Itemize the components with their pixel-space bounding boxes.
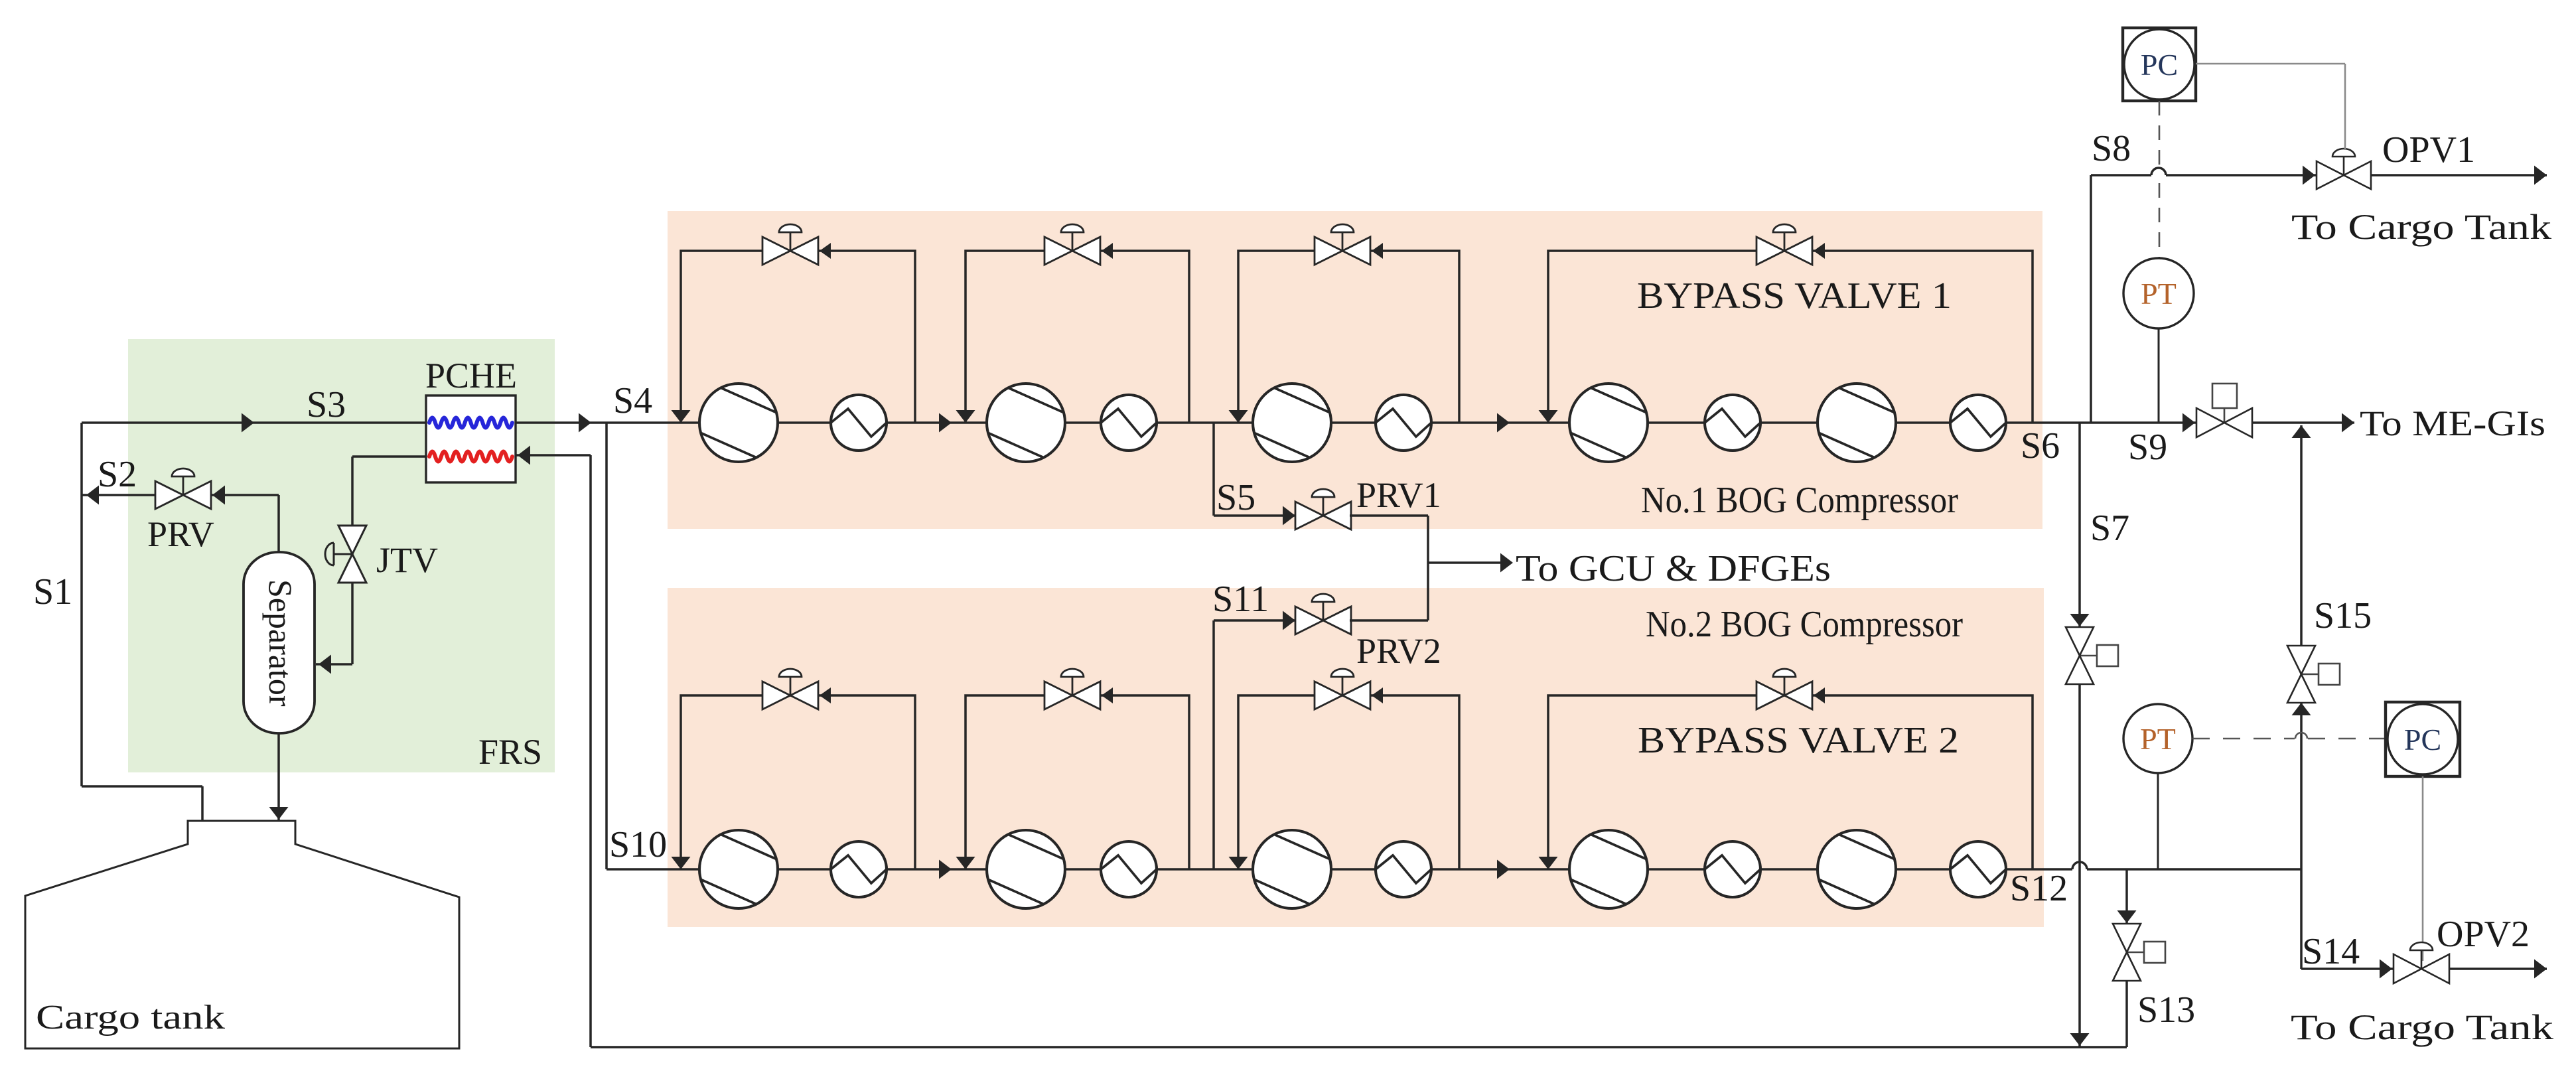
label S11 (1212, 579, 1269, 620)
wire bypass loop 4 row 1 (1548, 251, 2033, 423)
wire S2 (PRV to S1 line) (82, 486, 158, 505)
label OPV2 (2437, 914, 2530, 955)
svg-text:OPV1: OPV1 (2382, 129, 2475, 171)
valve PRV (155, 468, 211, 509)
wire S15 riser (2292, 425, 2311, 869)
wire S10 riser (S4 split down to No.2 train) (605, 423, 608, 869)
wire bypass loop 2 row 1 (966, 251, 1189, 423)
flow arrow row2 stage4 inlet (1497, 860, 1510, 879)
wire S8 riser (2090, 175, 2092, 423)
valve OPV2 (2394, 942, 2449, 983)
label No.2 BOG Compressor (1646, 604, 1963, 645)
label Separator (262, 579, 299, 707)
bypass valve 1 row 1 (762, 224, 818, 265)
label OPV1 (2382, 129, 2475, 171)
label S12 (2010, 868, 2068, 909)
flow arrow into loop 3 row 1 downcomer (1229, 410, 1248, 423)
valve S7 (2066, 627, 2118, 684)
compressor stage 3 row 2 (1253, 830, 1331, 908)
label To Cargo Tank (bottom) (2291, 1007, 2553, 1047)
intercooler stage 1 row 1 (831, 395, 887, 451)
svg-text:FRS: FRS (478, 732, 542, 772)
svg-text:S6: S6 (2021, 425, 2060, 466)
label S3 (307, 384, 346, 425)
label PCHE (425, 356, 517, 395)
flow arrow row1 stage2 inlet (939, 413, 952, 433)
wire S12 main line (No.2 compressor train) (607, 862, 2301, 869)
compressor stage 2 row 2 (987, 830, 1065, 908)
valve S13 (2113, 924, 2165, 981)
label JTV (376, 540, 438, 580)
bypass valve 3 row 1 (1315, 224, 1370, 265)
No.2 BOG compressor background (orange region) (668, 588, 2044, 927)
signal wire PC to OPV1 (2196, 64, 2345, 150)
intercooler stage 5 row 2 (1950, 841, 2006, 897)
label S4 (613, 380, 652, 421)
wire PRV1 outlet to GCU header (1350, 516, 1428, 620)
flow arrow into loop 2 row 2 downcomer (956, 857, 975, 869)
label FRS (478, 732, 542, 772)
svg-text:Separator: Separator (262, 579, 299, 707)
valve S9 (to ME-GIs control valve) (2196, 384, 2252, 437)
flow arrow row1 stage4 inlet (1497, 413, 1510, 433)
compressor stage 1 row 2 (699, 830, 778, 908)
compressor stage 4 row 2 (1569, 830, 1648, 908)
label S10 (609, 824, 667, 865)
label PRV (147, 514, 214, 554)
bypass valve 4 row 2 (1756, 669, 1812, 709)
label PRV1 (1356, 475, 1441, 515)
svg-text:To GCU & DFGEs: To GCU & DFGEs (1516, 548, 1831, 589)
wire bypass loop 3 row 1 (1238, 251, 1459, 423)
label S6 (2021, 425, 2060, 466)
compressor stage 2 row 1 (987, 384, 1065, 462)
svg-text:PRV1: PRV1 (1356, 475, 1441, 515)
svg-text:S10: S10 (609, 824, 667, 865)
flow arrow into bypass valve 2 row 2 (1102, 687, 1113, 703)
flow arrow into bypass valve 4 row 1 (1814, 243, 1825, 259)
wire JTV to separator (316, 583, 352, 674)
label S8 (2092, 128, 2131, 169)
intercooler stage 2 row 1 (1101, 395, 1157, 451)
wire S8 line to OPV1 (2091, 166, 2317, 185)
label S7 (2090, 508, 2129, 549)
svg-text:To ME-GIs: To ME-GIs (2360, 403, 2545, 443)
wire OPV1 outlet to cargo tank (2371, 166, 2547, 185)
intercooler stage 1 row 2 (831, 841, 887, 897)
No.1 BOG compressor background (orange region) (668, 211, 2042, 529)
wire S1 (tank to S3 header) (82, 423, 202, 821)
svg-text:S15: S15 (2314, 595, 2372, 636)
intercooler stage 4 row 1 (1705, 395, 1760, 451)
flow arrow into loop 1 row 1 downcomer (672, 410, 691, 423)
flow arrow into valve S9 (2182, 413, 2195, 433)
wire S13 valve to bottom header (2125, 981, 2128, 1047)
wire S4 main line (PCHE to No.1 compressor train) (516, 413, 2196, 433)
FRS unit background (green region) (128, 339, 555, 772)
svg-text:To Cargo Tank: To Cargo Tank (2291, 1007, 2553, 1047)
label S1 (33, 571, 72, 612)
svg-text:OPV2: OPV2 (2437, 914, 2530, 955)
compressor stage 4 row 1 (1569, 384, 1648, 462)
svg-text:S8: S8 (2092, 128, 2131, 169)
svg-text:S5: S5 (1216, 477, 1255, 518)
wire S3 (to PCHE) (82, 413, 427, 433)
flow arrow into loop 2 row 1 downcomer (956, 410, 975, 423)
wire bypass loop 1 row 1 (681, 251, 915, 423)
label No.1 BOG Compressor (1641, 480, 1958, 521)
label PRV2 (1356, 631, 1441, 671)
bypass valve 2 row 1 (1044, 224, 1100, 265)
svg-text:S13: S13 (2137, 989, 2195, 1031)
wire PRV2 outlet to GCU header (1350, 619, 1428, 622)
PCHE cold-side coil (blue) (429, 418, 512, 428)
label Cargo tank (36, 999, 225, 1037)
flow arrow into loop 3 row 2 downcomer (1229, 857, 1248, 869)
instrument PC (top) (2123, 28, 2196, 101)
valve S15 (2287, 646, 2340, 715)
wire hot return to PCHE (from bottom header) (516, 446, 591, 1048)
bypass valve 4 row 1 (1756, 224, 1812, 265)
intercooler stage 4 row 2 (1705, 841, 1760, 897)
svg-text:BYPASS VALVE 1: BYPASS VALVE 1 (1637, 275, 1952, 317)
label S9 (2128, 427, 2167, 468)
wire to ME-GIs (2252, 413, 2354, 433)
svg-text:PC: PC (2141, 48, 2178, 82)
wire separator gas to PRV (210, 486, 279, 554)
intercooler stage 3 row 2 (1376, 841, 1431, 897)
label S13 (2137, 989, 2195, 1031)
wire bypass loop 4 row 2 (1548, 695, 2033, 869)
wire to GCU and DFGEs (1428, 553, 1513, 573)
instrument PT (bottom) (2123, 704, 2192, 773)
wire PT tap to main line (2158, 328, 2160, 423)
signal wire PC to PT (dashed) (2159, 101, 2161, 257)
separator vessel (244, 552, 315, 733)
heat exchanger PCHE body (426, 395, 516, 482)
label S2 (98, 454, 137, 495)
flow arrow row2 stage2 inlet (939, 860, 952, 879)
instrument PC (bottom) (2386, 702, 2460, 776)
intercooler stage 5 row 1 (1950, 395, 2006, 451)
svg-text:To Cargo Tank: To Cargo Tank (2291, 207, 2551, 247)
wire S7 drop line (2070, 423, 2090, 627)
svg-text:S1: S1 (33, 571, 72, 612)
svg-text:PRV: PRV (147, 514, 214, 554)
wire S5 branch (1214, 423, 1297, 526)
svg-text:Cargo tank: Cargo tank (36, 999, 225, 1037)
cargo tank (25, 821, 459, 1048)
svg-text:S12: S12 (2010, 868, 2068, 909)
flow arrow into bypass valve 1 row 1 (820, 243, 831, 259)
svg-text:No.2 BOG Compressor: No.2 BOG Compressor (1646, 604, 1963, 645)
wire OPV2 outlet to cargo tank (2449, 960, 2547, 979)
label To Cargo Tank (top) (2291, 207, 2551, 247)
flow arrow into bypass valve 2 row 1 (1102, 243, 1113, 259)
flow arrow into loop 4 row 2 downcomer (1539, 857, 1558, 869)
svg-text:S9: S9 (2128, 427, 2167, 468)
valve JTV (325, 526, 366, 583)
wire bypass loop 1 row 2 (681, 695, 915, 869)
flow arrow into bypass valve 3 row 2 (1372, 687, 1383, 703)
signal wire PC to OPV2 (2422, 776, 2424, 961)
label To GCU & DFGEs (1516, 548, 1831, 589)
flow arrow into bypass valve 1 row 2 (820, 687, 831, 703)
svg-text:PC: PC (2404, 723, 2441, 756)
svg-text:S7: S7 (2090, 508, 2129, 549)
svg-text:PCHE: PCHE (425, 356, 517, 395)
wire PCHE hot out to JTV (352, 457, 426, 526)
valve PRV1 (1295, 489, 1351, 530)
svg-text:S11: S11 (1212, 579, 1269, 620)
label S14 (2302, 931, 2360, 972)
flow arrow into bypass valve 4 row 2 (1814, 687, 1825, 703)
intercooler stage 2 row 2 (1101, 841, 1157, 897)
svg-text:S14: S14 (2302, 931, 2360, 972)
label BYPASS VALVE 1 (1637, 275, 1952, 317)
signal wire PT to PC (dashed) (2192, 733, 2385, 739)
wire S7 valve to bottom header (2070, 684, 2090, 1047)
label To ME-GIs (2360, 403, 2545, 443)
wire S11 branch (1214, 611, 1297, 870)
svg-text:S3: S3 (307, 384, 346, 425)
compressor stage 3 row 1 (1253, 384, 1331, 462)
bypass valve 1 row 2 (762, 669, 818, 709)
wire PT tap to S12 line (2157, 773, 2159, 869)
bypass valve 3 row 2 (1315, 669, 1370, 709)
bypass valve 2 row 2 (1044, 669, 1100, 709)
compressor stage 5 row 2 (1818, 830, 1896, 908)
compressor stage 1 row 1 (699, 384, 778, 462)
svg-text:PT: PT (2141, 277, 2177, 311)
instrument PT (top) (2123, 258, 2194, 328)
flow arrow into loop 1 row 2 downcomer (672, 857, 691, 869)
PCHE hot-side coil (red) (429, 452, 512, 462)
label BYPASS VALVE 2 (1638, 720, 1959, 761)
wire bottom return header (591, 1046, 2127, 1048)
intercooler stage 3 row 1 (1376, 395, 1431, 451)
svg-text:BYPASS VALVE 2: BYPASS VALVE 2 (1638, 720, 1959, 761)
label S15 (2314, 595, 2372, 636)
svg-text:PT: PT (2140, 722, 2176, 756)
flow arrow into bypass valve 3 row 1 (1372, 243, 1383, 259)
flow arrow into loop 4 row 1 downcomer (1539, 410, 1558, 423)
wire S13 branch (2117, 869, 2137, 924)
compressor stage 5 row 1 (1818, 384, 1896, 462)
wire bypass loop 3 row 2 (1238, 695, 1459, 869)
svg-text:No.1 BOG Compressor: No.1 BOG Compressor (1641, 480, 1958, 521)
svg-text:S4: S4 (613, 380, 652, 421)
wire separator drain to cargo tank (269, 733, 289, 821)
valve OPV1 (2317, 149, 2371, 189)
wire S14 (2301, 869, 2394, 979)
svg-text:S2: S2 (98, 454, 137, 495)
wire bypass loop 2 row 2 (966, 695, 1189, 869)
svg-text:PRV2: PRV2 (1356, 631, 1441, 671)
valve PRV2 (1295, 594, 1351, 634)
label S5 (1216, 477, 1255, 518)
svg-text:JTV: JTV (376, 540, 438, 580)
